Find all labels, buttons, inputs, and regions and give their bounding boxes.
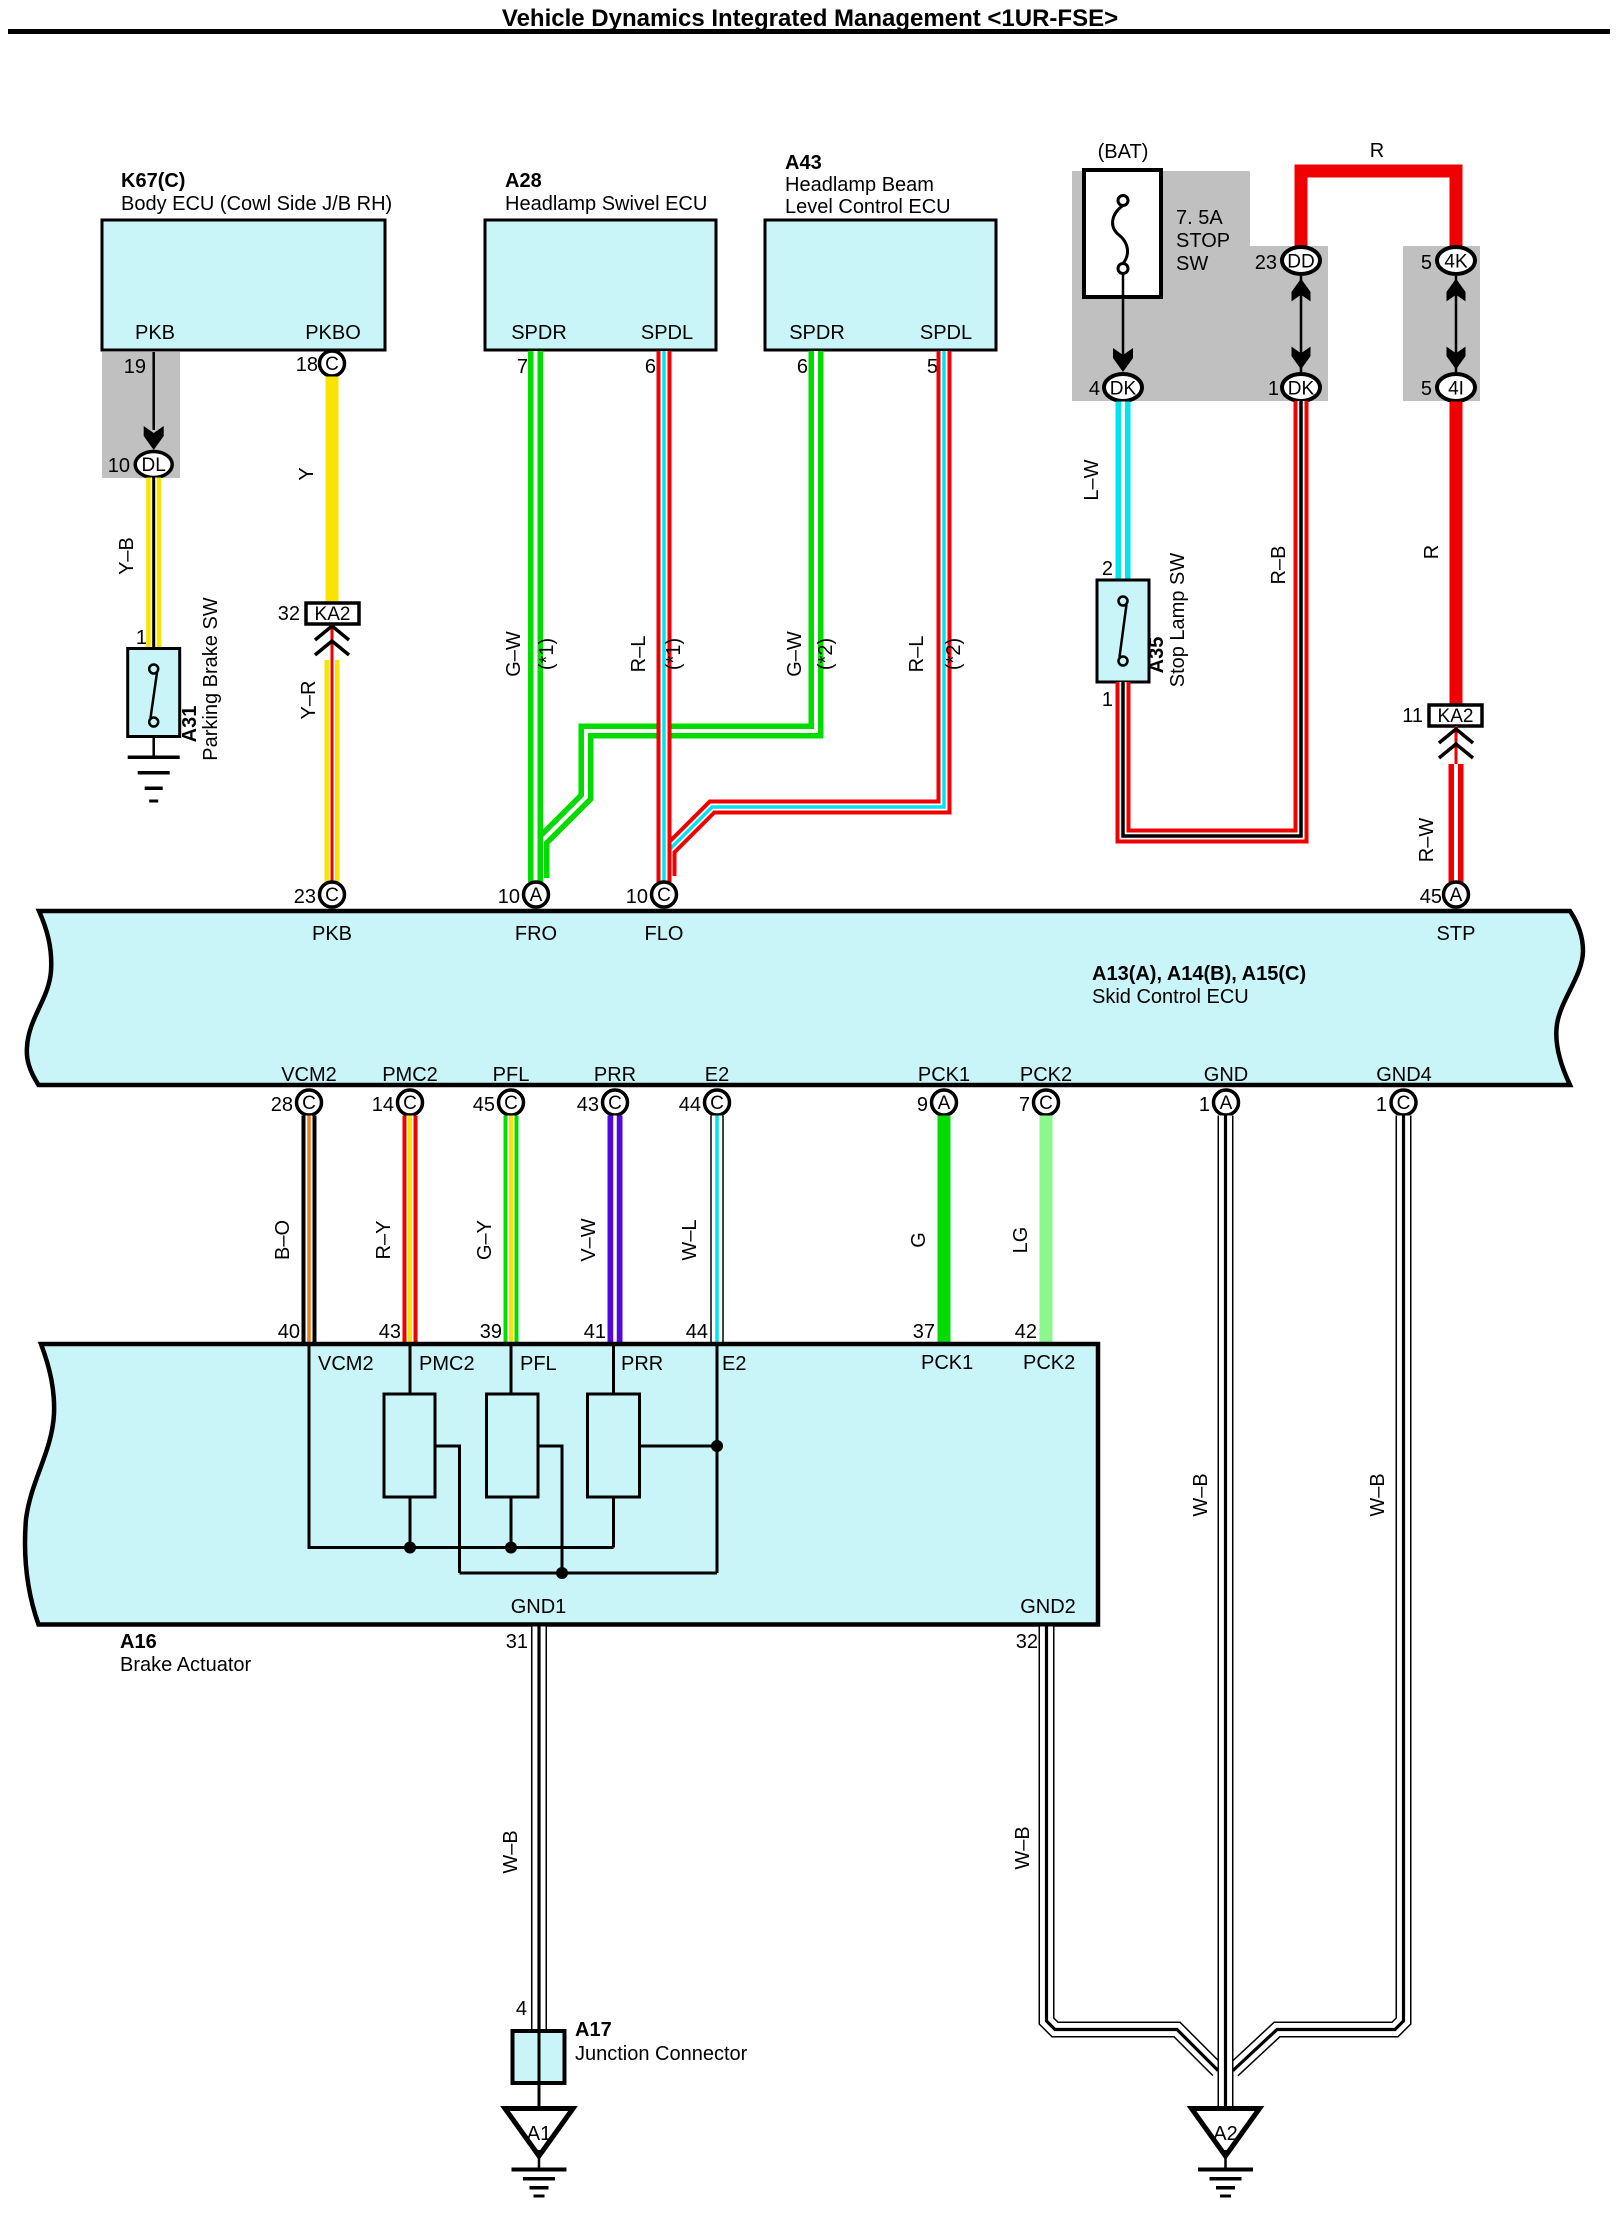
svg-text:V–W: V–W [578,1218,600,1261]
wire fuse to connector DK [1113,273,1133,372]
svg-text:5: 5 [1421,378,1432,400]
svg-text:A: A [1450,885,1463,906]
wire pin 19 PKB black [124,352,164,450]
svg-text:A13(A), A14(B), A15(C): A13(A), A14(B), A15(C) [1092,963,1306,985]
internal wire PFL [510,1346,513,1394]
svg-text:C: C [325,354,339,375]
svg-text:E2: E2 [705,1064,729,1086]
title: Vehicle Dynamics Integrated Management [8,5,1610,34]
svg-text:1: 1 [136,627,147,649]
wire R-L (*2) branch from A43 SPDL [669,351,965,876]
svg-text:Level Control ECU: Level Control ECU [785,196,951,218]
svg-text:11: 11 [1402,705,1423,727]
connector K67(C) Body ECU box [102,170,392,350]
wire V-W [578,1116,623,1345]
svg-text:DK: DK [1288,379,1315,400]
ground under A31 [128,737,180,803]
ground under A1 [512,2150,567,2198]
svg-text:FLO: FLO [645,923,684,945]
svg-text:C: C [608,1093,622,1114]
svg-text:32: 32 [278,603,300,625]
svg-text:DL: DL [142,455,166,476]
connector oval 5 4K [1421,247,1475,274]
svg-text:Body ECU (Cowl Side J/B RH): Body ECU (Cowl Side J/B RH) [121,193,392,215]
svg-text:PFL: PFL [520,1353,557,1375]
svg-text:G–W: G–W [503,631,525,677]
solenoid coil 3 [588,1394,640,1497]
svg-text:Y–B: Y–B [116,537,138,575]
svg-text:LG: LG [1010,1227,1032,1254]
svg-text:Junction Connector: Junction Connector [575,2043,748,2065]
wire W-B GND straight to A2 [1190,1116,1226,2109]
wire G solid [908,1116,951,1345]
junction dots [404,1440,723,1579]
svg-text:C: C [657,885,671,906]
svg-text:A16: A16 [120,1631,157,1653]
pin circle 23 C PKB [294,882,345,908]
svg-text:R–Y: R–Y [373,1221,395,1260]
pin circle 14 C PMC2 [372,1090,423,1116]
svg-text:Headlamp Beam: Headlamp Beam [785,174,934,196]
svg-text:42: 42 [1015,1321,1037,1343]
wire R-B from A35 pin1 up to 1 DK [1123,401,1301,836]
connector oval 10 DL [108,452,172,478]
wire W-B GND1 down to A17 [500,1627,547,2032]
svg-text:2: 2 [1102,558,1113,580]
wire R-Y [373,1116,418,1345]
gray junction block region (BAT)/STOP SW [1072,171,1480,401]
svg-text:18: 18 [296,354,318,376]
double arrow 4K-4I [1447,276,1466,372]
svg-text:PRR: PRR [621,1353,663,1375]
connector circle 18 C [296,351,345,376]
pin circle 1 C GND4 [1376,1090,1416,1116]
pin circle 45 A STP [1420,882,1469,908]
connector A28 Headlamp Swivel ECU box [485,170,716,350]
svg-text:4K: 4K [1444,252,1468,273]
svg-text:6: 6 [797,356,808,378]
svg-text:40: 40 [278,1321,300,1343]
svg-text:10: 10 [108,455,130,477]
svg-text:37: 37 [913,1321,935,1343]
svg-text:(*1): (*1) [536,638,558,670]
svg-text:Headlamp Swivel ECU: Headlamp Swivel ECU [505,193,707,215]
svg-text:Y: Y [296,467,318,480]
svg-text:W–B: W–B [1012,1826,1034,1869]
svg-text:44: 44 [686,1321,708,1343]
connector oval 4 DK [1089,374,1142,401]
pin circle 10 C FLO [626,882,677,908]
internal wire PMC2 [409,1346,412,1394]
svg-text:PRR: PRR [594,1064,636,1086]
svg-text:PMC2: PMC2 [419,1353,475,1375]
svg-text:A35: A35 [1146,637,1168,674]
coil bottom leads [410,1497,614,1548]
svg-text:B–O: B–O [272,1220,294,1260]
shield triangle A1 [505,2109,573,2157]
switch A31 Parking Brake SW [128,597,222,761]
svg-text:SPDR: SPDR [789,322,845,344]
svg-text:4: 4 [516,1998,527,2020]
svg-text:VCM2: VCM2 [318,1353,374,1375]
svg-text:A17: A17 [575,2019,612,2041]
svg-text:C: C [1397,1093,1411,1114]
svg-text:DK: DK [1110,379,1137,400]
svg-text:7: 7 [1019,1094,1030,1116]
ECU band A13(A) A14(B) A15(C) Skid Control ECU [27,911,1583,1086]
svg-text:W–B: W–B [1190,1473,1212,1516]
svg-text:K67(C): K67(C) [121,170,185,192]
connector oval 23 DD [1255,247,1320,274]
wire R-W down to STP [1416,764,1464,882]
svg-text:4I: 4I [1448,379,1464,400]
svg-text:6: 6 [645,356,656,378]
svg-text:W–L: W–L [679,1219,701,1260]
svg-text:PKBO: PKBO [305,322,361,344]
svg-text:G–Y: G–Y [474,1220,496,1260]
brake actuator A16 box [25,1344,1098,1676]
svg-text:7. 5A: 7. 5A [1176,207,1223,229]
svg-text:10: 10 [626,886,648,908]
svg-text:Parking Brake SW: Parking Brake SW [200,597,222,761]
svg-text:C: C [504,1093,518,1114]
svg-text:41: 41 [584,1321,606,1343]
svg-text:PKB: PKB [312,923,352,945]
svg-text:23: 23 [294,886,316,908]
svg-text:C: C [1039,1093,1053,1114]
junction box 32 KA2 [278,603,359,625]
svg-text:A: A [1220,1093,1233,1114]
svg-text:VCM2: VCM2 [281,1064,337,1086]
svg-text:R: R [1421,545,1443,559]
svg-text:GND4: GND4 [1376,1064,1432,1086]
svg-text:C: C [325,885,339,906]
svg-text:SPDL: SPDL [920,322,972,344]
svg-text:45: 45 [1420,886,1442,908]
pin circle 7 C PCK2 [1019,1090,1059,1116]
svg-text:A43: A43 [785,152,822,174]
wire L-W from 4 DK [1081,402,1131,581]
svg-text:PCK2: PCK2 [1020,1064,1072,1086]
double arrow DD-DK [1292,276,1311,372]
svg-text:PKB: PKB [135,322,175,344]
svg-text:R–B: R–B [1268,546,1290,585]
wire G-Y [474,1116,519,1345]
wire W-B GND4 with bend to A2 [1233,1116,1404,2071]
svg-text:A31: A31 [179,706,201,743]
svg-text:Brake Actuator: Brake Actuator [120,1654,252,1676]
wire B-O [272,1116,317,1345]
wire R thick bridge DD to 4K [1301,140,1456,246]
internal ground bus GND1 [460,1572,718,1575]
svg-text:KA2: KA2 [1438,706,1474,727]
connector A43 Headlamp Beam Level Control ECU box [765,152,996,350]
svg-text:SPDR: SPDR [511,322,567,344]
svg-text:PFL: PFL [493,1064,530,1086]
svg-text:STOP: STOP [1176,230,1230,252]
svg-text:PCK2: PCK2 [1023,1352,1075,1374]
svg-text:SW: SW [1176,253,1208,275]
svg-text:E2: E2 [722,1353,746,1375]
svg-text:C: C [710,1093,724,1114]
svg-text:(*1): (*1) [663,638,685,670]
pin circle 9 A PCK1 [917,1090,957,1116]
wire W-B GND2 with bend to A2 [1012,1627,1218,2071]
wire G-W (*2) branch from A43 SPDR [542,351,837,878]
svg-text:45: 45 [473,1094,495,1116]
internal wire PRR [612,1346,615,1394]
svg-text:PMC2: PMC2 [382,1064,438,1086]
svg-text:19: 19 [124,356,146,378]
svg-text:C: C [403,1093,417,1114]
pin circle 44 C E2 [679,1090,730,1116]
svg-text:43: 43 [577,1094,599,1116]
wire Y solid [296,377,339,604]
pin circle 10 A FRO [498,882,549,908]
svg-text:C: C [302,1093,316,1114]
coil side taps [435,1446,717,1573]
wire R-L (*1) from A28 SPDL [628,351,685,882]
svg-text:7: 7 [517,356,528,378]
svg-text:5: 5 [1421,252,1432,274]
svg-text:G–W: G–W [784,631,806,677]
fuse 7.5A STOP SW (BAT) [1084,141,1230,297]
svg-text:1: 1 [1376,1094,1387,1116]
svg-text:STP: STP [1437,923,1476,945]
svg-text:43: 43 [379,1321,401,1343]
svg-text:A: A [938,1093,951,1114]
junction connector A17 [513,1998,748,2108]
solenoid coil 1 [384,1394,435,1497]
svg-text:L–W: L–W [1081,459,1103,500]
svg-text:GND1: GND1 [511,1596,567,1618]
svg-text:28: 28 [271,1094,293,1116]
svg-text:9: 9 [917,1094,928,1116]
chevrons under KA2 [1439,726,1473,765]
junction box 11 KA2 [1402,705,1482,727]
svg-text:PCK1: PCK1 [921,1352,973,1374]
wire LG solid [1010,1116,1053,1345]
svg-text:14: 14 [372,1094,394,1116]
svg-text:1: 1 [1199,1094,1210,1116]
pin circle 1 A GND [1199,1090,1239,1116]
svg-text:Skid Control ECU: Skid Control ECU [1092,986,1249,1008]
svg-text:1: 1 [1268,378,1279,400]
svg-text:W–B: W–B [500,1830,522,1873]
svg-text:A28: A28 [505,170,542,192]
wire Y-R [298,660,340,882]
wire G-W (*1) from A28 SPDR [503,351,558,882]
svg-text:31: 31 [506,1631,528,1653]
pin circle 43 C PRR [577,1090,628,1116]
chevrons under KA2 [315,624,349,662]
internal wire VCM2 [309,1346,614,1548]
svg-text:10: 10 [498,886,520,908]
svg-text:1: 1 [1102,689,1113,711]
pin circle 45 C PFL [473,1090,524,1116]
svg-text:KA2: KA2 [315,604,351,625]
svg-text:PCK1: PCK1 [918,1064,970,1086]
svg-text:(*2): (*2) [815,638,837,670]
svg-text:DD: DD [1287,252,1314,273]
svg-text:32: 32 [1016,1631,1038,1653]
svg-text:5: 5 [927,356,938,378]
svg-text:Vehicle Dynamics Integrated Ma: Vehicle Dynamics Integrated Management <… [502,5,1118,32]
svg-text:G: G [908,1232,930,1248]
pin circle 28 C VCM2 [271,1090,322,1116]
gray region under pin 19 [102,352,180,478]
svg-text:A2: A2 [1213,2123,1237,2145]
svg-text:Y–R: Y–R [298,681,320,720]
svg-text:Stop Lamp SW: Stop Lamp SW [1167,553,1189,688]
shield triangle A2 [1192,2109,1260,2157]
switch A35 Stop Lamp SW [1097,553,1189,711]
svg-text:39: 39 [480,1321,502,1343]
svg-text:FRO: FRO [515,923,557,945]
svg-text:GND: GND [1204,1064,1248,1086]
svg-text:R: R [1370,140,1384,162]
svg-text:R–L: R–L [628,636,650,673]
svg-text:(BAT): (BAT) [1098,141,1149,163]
connector oval 1 DK [1268,374,1320,401]
wire R thick from 4I to KA2 [1421,402,1463,706]
svg-text:A1: A1 [527,2123,551,2145]
internal wire E2 [716,1346,719,1573]
svg-text:W–B: W–B [1367,1473,1389,1516]
svg-text:(*2): (*2) [943,638,965,670]
svg-text:GND2: GND2 [1020,1596,1076,1618]
svg-text:44: 44 [679,1094,701,1116]
svg-text:R–L: R–L [906,636,928,673]
svg-text:23: 23 [1255,252,1277,274]
ground under A2 [1198,2150,1253,2198]
solenoid coil 2 [487,1394,539,1497]
svg-text:A: A [530,885,543,906]
wire W-L [679,1116,724,1345]
connector oval 5 4I [1421,374,1475,401]
svg-text:SPDL: SPDL [641,322,693,344]
svg-text:4: 4 [1089,378,1100,400]
wire Y-B [116,478,161,649]
svg-text:R–W: R–W [1416,818,1438,863]
